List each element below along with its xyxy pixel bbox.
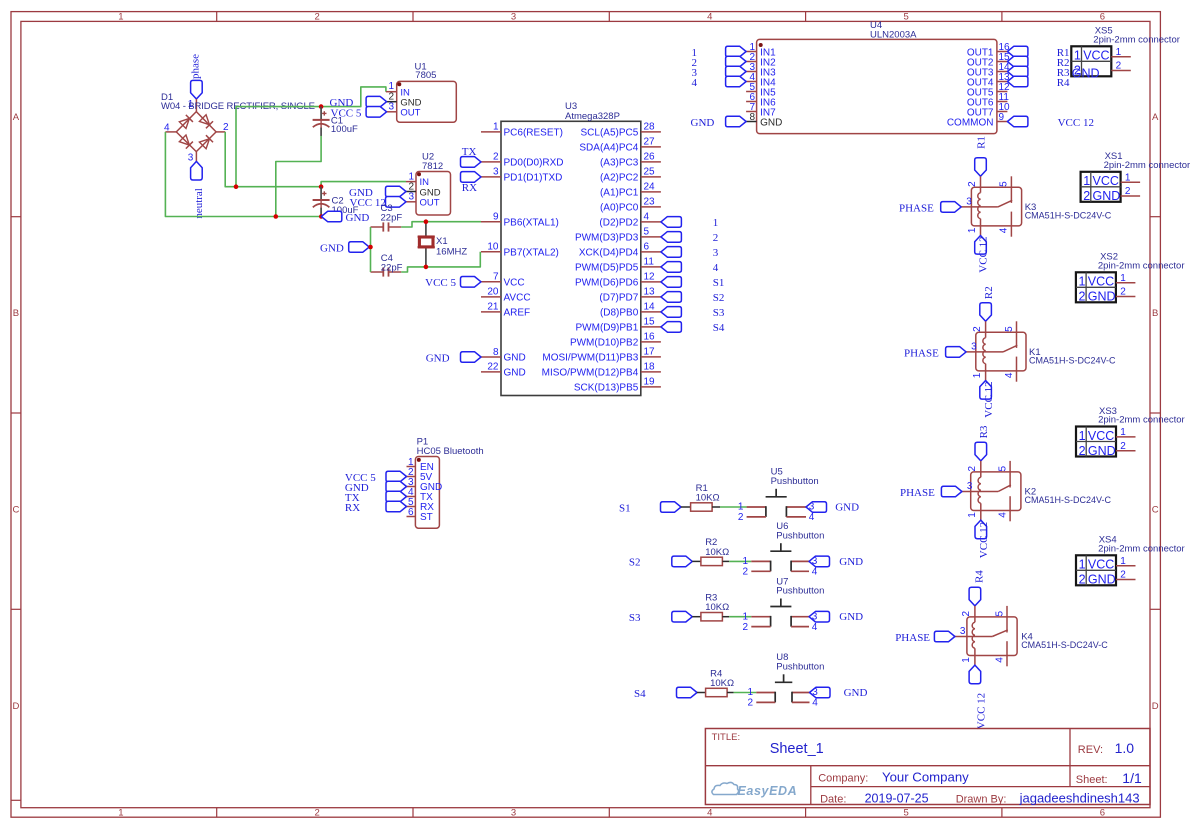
net flag S4: [677, 687, 698, 698]
svg-text:9: 9: [493, 212, 499, 223]
svg-text:2: 2: [743, 622, 749, 633]
pushbutton U8 actuator: [775, 681, 792, 683]
svg-text:ULN2003A: ULN2003A: [870, 30, 917, 41]
K2 pin 2 wire: [980, 461, 982, 477]
connector XS2 divider vertical: [1085, 272, 1087, 302]
K3 pin 1 wire: [980, 219, 982, 236]
net flag 2 at U4 IN2: [726, 56, 747, 67]
net flag PHASE at K3: [941, 202, 962, 213]
net flag RX at P1 pin 5: [386, 501, 407, 512]
svg-text:SCL(A5)PC5: SCL(A5)PC5: [580, 128, 638, 139]
net flag VCC 12 at U2 pin3: [386, 197, 407, 208]
svg-text:VCC 12: VCC 12: [1058, 117, 1094, 129]
K4 pin 4 contact: [1006, 641, 1008, 666]
pushbutton U8 pin 4 line: [792, 701, 810, 703]
crystal X1 top lead: [425, 222, 427, 237]
svg-text:12: 12: [644, 272, 656, 283]
svg-text:S3: S3: [713, 307, 725, 319]
svg-text:S4: S4: [634, 688, 646, 700]
svg-text:2: 2: [972, 326, 983, 332]
svg-text:5: 5: [999, 181, 1010, 187]
U3 pin 1 PC6(RESET) stub: [481, 131, 501, 133]
net flag R4 above K4: [969, 587, 981, 606]
svg-text:16MHZ: 16MHZ: [436, 246, 467, 257]
pushbutton U5 pin 3 line: [786, 506, 806, 508]
svg-text:VCC: VCC: [1093, 174, 1119, 188]
svg-text:2: 2: [1120, 287, 1126, 298]
svg-text:PWM(D6)PD6: PWM(D6)PD6: [575, 278, 639, 289]
svg-text:2: 2: [493, 152, 499, 163]
pushbutton U7 actuator: [770, 606, 791, 608]
svg-text:4: 4: [1004, 372, 1015, 378]
U4 pin 3 IN3 stub: [746, 71, 757, 73]
EasyEDA logo cloud: [712, 782, 739, 794]
P1 pin 4 TX stub: [407, 496, 416, 498]
svg-text:1: 1: [743, 611, 749, 622]
driver U4 box: [757, 39, 997, 133]
svg-text:ST: ST: [420, 512, 433, 523]
svg-text:PB6(XTAL1): PB6(XTAL1): [504, 217, 559, 228]
net flag VCC 12 below K4: [969, 665, 981, 684]
K2 pin 3 wire: [962, 491, 998, 493]
svg-text:5: 5: [1004, 326, 1015, 332]
resistor R2: [701, 557, 723, 565]
voltage regulator U2 box: [416, 172, 451, 216]
net flag VCC 12 below K1: [980, 381, 992, 400]
svg-text:SDA(A4)PC4: SDA(A4)PC4: [579, 143, 638, 154]
frame column ticks top: [216, 12, 218, 22]
XS4 pin 1 stub: [1116, 565, 1136, 567]
U3 pin 10 PB7(XTAL2) stub: [481, 251, 501, 253]
net flag S3 at U3 right: [661, 307, 682, 318]
svg-text:9: 9: [999, 112, 1005, 123]
net flag R1 above K3: [975, 158, 987, 177]
svg-text:3: 3: [960, 626, 966, 637]
svg-text:CMA51H-S-DC24V-C: CMA51H-S-DC24V-C: [1029, 355, 1116, 365]
svg-text:4: 4: [994, 657, 1005, 663]
relay K1 box: [976, 332, 1026, 371]
connector XS5 divider vertical: [1081, 46, 1083, 76]
U4 pin 9 COMMON stub: [997, 121, 1008, 123]
svg-text:GND: GND: [1088, 573, 1116, 587]
svg-text:20: 20: [487, 287, 499, 298]
net flag GND at crystal: [349, 242, 370, 253]
svg-text:1: 1: [738, 502, 744, 513]
diode D1b top-right: [199, 115, 213, 129]
svg-text:4: 4: [707, 12, 712, 23]
svg-text:1: 1: [1079, 558, 1086, 572]
K3 coil: [978, 193, 981, 219]
wire S2 flag to R2: [692, 560, 701, 562]
net flag R3 above K2: [975, 442, 987, 461]
svg-text:AVCC: AVCC: [504, 293, 531, 304]
svg-text:5: 5: [997, 465, 1008, 471]
title block logo cell divider: [810, 766, 812, 805]
pushbutton U6 left bar: [770, 561, 772, 572]
svg-text:GND: GND: [1072, 67, 1100, 81]
K2 pin 5 contact: [1009, 461, 1011, 488]
svg-text:Company:: Company:: [818, 773, 868, 785]
net flag 1 at U3 right: [661, 217, 682, 228]
svg-text:2: 2: [967, 465, 978, 471]
wire R1 to U5 pin1: [720, 506, 747, 508]
svg-text:1: 1: [972, 372, 983, 378]
pushbutton U6 pin 1 line: [751, 560, 770, 562]
wire bridge pin2 to C2 top: [225, 132, 321, 187]
U1 pin 2 stub: [387, 101, 397, 103]
pushbutton U5 pin 4 line: [786, 516, 806, 518]
net flag R1 at U4 OUT1: [1007, 46, 1028, 57]
svg-text:VCC: VCC: [504, 277, 525, 288]
net flag R2 above K1: [980, 303, 992, 322]
connector XS1 box: [1081, 172, 1121, 202]
net flag GND at P1 pin 3: [386, 481, 407, 492]
U3 pin 7 VCC stub: [481, 281, 501, 283]
pushbutton U8 pin 2 line: [756, 701, 775, 703]
K2 armature: [998, 485, 1011, 492]
svg-text:6: 6: [1100, 12, 1105, 23]
svg-text:SCK(D13)PB5: SCK(D13)PB5: [574, 383, 639, 394]
svg-text:10KΩ: 10KΩ: [696, 492, 720, 503]
junction X1 top: [424, 219, 429, 224]
svg-text:GND: GND: [426, 352, 450, 364]
svg-text:neutral: neutral: [193, 188, 205, 219]
voltage regulator U1 box: [397, 81, 457, 122]
svg-text:Pushbutton: Pushbutton: [771, 476, 819, 487]
svg-text:25: 25: [644, 167, 656, 178]
svg-text:3: 3: [188, 153, 194, 164]
svg-text:3: 3: [966, 196, 972, 207]
relay K2 box: [971, 472, 1021, 511]
svg-text:3: 3: [812, 687, 818, 698]
net flag PHASE at K4: [934, 631, 955, 642]
U3 pin 13 (D7)PD7 stub: [641, 296, 661, 298]
junction crystal GND: [368, 245, 373, 250]
net flag PHASE at K2: [941, 486, 962, 497]
net flag PHASE at K1: [946, 347, 967, 358]
svg-text:Pushbutton: Pushbutton: [776, 530, 824, 541]
U3 pin 23 (A0)PC0 stub: [641, 206, 661, 208]
capacitor C3: [371, 226, 384, 228]
XS4 pin 2 stub: [1116, 579, 1136, 581]
svg-text:2: 2: [713, 232, 719, 244]
pushbutton U5 right bar: [785, 506, 787, 517]
svg-text:5: 5: [903, 12, 908, 23]
svg-text:4: 4: [812, 698, 818, 709]
svg-text:1: 1: [493, 122, 499, 133]
connector XS4 divider vertical: [1085, 555, 1087, 585]
net flag 2 at U3 right: [661, 232, 682, 243]
title block rev column divider: [1069, 729, 1071, 787]
U1 pin 3 stub: [387, 111, 397, 113]
svg-text:16: 16: [644, 332, 656, 343]
wire neutral bottom rail: [165, 132, 321, 217]
svg-text:PHASE: PHASE: [904, 348, 939, 360]
wire S4 flag to R4: [697, 692, 706, 694]
net flag S2 at U3 right: [661, 292, 682, 303]
pushbutton U7 pin 1 line: [751, 616, 770, 618]
svg-text:19: 19: [644, 377, 656, 388]
svg-text:1: 1: [118, 12, 123, 23]
svg-text:R3: R3: [978, 425, 990, 438]
K2 pin 1 wire: [980, 503, 982, 520]
net flag S2: [672, 556, 693, 567]
connector XS3 box: [1076, 427, 1116, 457]
wire C3 left to C4 left: [370, 227, 372, 272]
svg-text:MISO/PWM(D12)PB4: MISO/PWM(D12)PB4: [542, 368, 639, 379]
svg-text:3: 3: [971, 341, 977, 352]
K1 armature: [1003, 345, 1017, 352]
U3 pin 15 PWM(D9)PB1 stub: [641, 326, 661, 328]
svg-text:3: 3: [493, 167, 499, 178]
svg-text:23: 23: [644, 197, 656, 208]
svg-text:1: 1: [1074, 49, 1081, 63]
pushbutton U5 actuator: [766, 496, 787, 498]
svg-text:jagadeeshdinesh143: jagadeeshdinesh143: [1019, 791, 1140, 806]
svg-text:S1: S1: [713, 277, 725, 289]
svg-text:2: 2: [1079, 573, 1086, 587]
svg-text:D: D: [12, 701, 19, 712]
svg-text:2: 2: [743, 567, 749, 578]
U4 pin 6 IN6 stub: [746, 101, 757, 103]
P1 pin 3 GND stub: [407, 486, 416, 488]
junction neutral rail: [274, 214, 279, 219]
U3 pin 12 PWM(D6)PD6 stub: [641, 281, 661, 283]
U3 pin 17 MOSI/PWM(D11)PB3 stub: [641, 356, 661, 358]
U4 pin 16 OUT1 stub: [997, 51, 1008, 53]
net flag neutral: [191, 161, 203, 180]
svg-text:1: 1: [1116, 47, 1122, 58]
P1 pin 5 RX stub: [407, 506, 416, 508]
svg-text:22pF: 22pF: [381, 213, 403, 224]
svg-text:8: 8: [749, 112, 755, 123]
U2 pin 1 stub: [406, 181, 416, 183]
net flag TX at U3 pin2: [461, 157, 482, 168]
connector XS2 box: [1076, 272, 1116, 302]
wire R1 lead right: [712, 506, 720, 508]
pushbutton U8 left bar: [774, 692, 776, 703]
svg-text:PWM(D9)PB1: PWM(D9)PB1: [576, 323, 639, 334]
svg-text:28: 28: [644, 122, 656, 133]
svg-text:2: 2: [1116, 61, 1122, 72]
U4 pin 8 GND stub: [746, 121, 757, 123]
svg-text:15: 15: [644, 317, 656, 328]
svg-text:3: 3: [511, 12, 516, 23]
svg-text:(D8)PB0: (D8)PB0: [600, 308, 639, 319]
svg-text:2: 2: [315, 12, 320, 23]
title block title row divider: [705, 765, 1150, 767]
net flag GND at U1 pin2: [366, 96, 387, 107]
wire to U2 IN: [321, 182, 406, 187]
wire R4 lead right: [727, 692, 734, 694]
net flag 3 at U3 right: [661, 247, 682, 258]
svg-text:VCC: VCC: [1088, 558, 1114, 572]
wire branch up to C1 top: [236, 107, 321, 187]
U2 corner dot: [417, 172, 421, 176]
net flag R2 at U4 OUT2: [1007, 56, 1028, 67]
svg-text:3: 3: [388, 102, 394, 113]
wire C1 top to U1 IN: [321, 87, 386, 107]
svg-text:4: 4: [707, 808, 712, 819]
pushbutton U6 pin 4 line: [791, 570, 809, 572]
net flag VCC 5 at P1 pin 2: [386, 471, 407, 482]
svg-text:PHASE: PHASE: [899, 203, 934, 215]
wire C1 bottom to neutral net: [276, 136, 321, 217]
svg-text:TITLE:: TITLE:: [712, 732, 741, 743]
svg-text:6: 6: [408, 507, 414, 518]
K3 pin 3 wire: [961, 206, 998, 208]
U3 pin 25 (A2)PC2 stub: [641, 176, 661, 178]
U4 pin 15 OUT2 stub: [997, 61, 1008, 63]
svg-text:18: 18: [644, 362, 656, 373]
net flag S1: [661, 502, 682, 513]
connector XS5 box: [1071, 46, 1111, 76]
wire S1 flag to R1: [681, 506, 691, 508]
K2 pin 4 contact: [1009, 496, 1011, 521]
svg-text:TX: TX: [462, 146, 477, 158]
net flag VCC 5 at U3 pin7: [461, 277, 482, 288]
junction on bridge output: [234, 184, 239, 189]
P1 pin 6 ST stub: [407, 516, 416, 518]
U4 pin 7 IN7 stub: [746, 111, 757, 113]
U3 pin 27 SDA(A4)PC4 stub: [641, 146, 661, 148]
K3 armature: [998, 200, 1012, 207]
svg-text:2pin-2mm connector: 2pin-2mm connector: [1098, 543, 1185, 554]
svg-text:GND: GND: [839, 611, 863, 623]
svg-text:R4: R4: [973, 570, 985, 583]
svg-text:CMA51H-S-DC24V-C: CMA51H-S-DC24V-C: [1021, 640, 1108, 650]
U4 pin 13 OUT4 stub: [997, 81, 1008, 83]
svg-text:11: 11: [644, 257, 655, 268]
K2 coil: [978, 477, 981, 503]
wire R4 to U8 pin1: [734, 692, 757, 694]
net flag R3 at U4 OUT3: [1007, 66, 1028, 77]
wire R3 to U7 pin1: [729, 616, 751, 618]
XS2 pin 1 stub: [1116, 282, 1136, 284]
XS3 pin 2 stub: [1116, 450, 1136, 452]
XS1 pin 2 stub: [1121, 195, 1141, 197]
svg-text:PD1(D1)TXD: PD1(D1)TXD: [504, 173, 563, 184]
svg-text:3: 3: [967, 481, 973, 492]
capacitor C1: [320, 107, 322, 120]
microcontroller U3 box: [501, 121, 641, 395]
P1 corner dot: [417, 458, 421, 462]
svg-text:(D2)PD2: (D2)PD2: [599, 218, 638, 229]
svg-text:XCK(D4)PD4: XCK(D4)PD4: [579, 248, 639, 259]
K4 pin 2 wire: [974, 606, 976, 622]
net flag GND at U2 pin2: [386, 186, 407, 197]
svg-text:GND: GND: [346, 212, 370, 224]
svg-text:10KΩ: 10KΩ: [710, 678, 734, 689]
net flag S1 at U3 right: [661, 277, 682, 288]
bridge pin 3 stub: [195, 152, 197, 162]
svg-text:Pushbutton: Pushbutton: [776, 586, 824, 597]
pushbutton U5 pin 2 line: [747, 516, 766, 518]
K3 pin 4 contact: [1010, 212, 1012, 237]
net flag RX at U3 pin3: [461, 172, 482, 183]
net flag phase: [191, 80, 203, 99]
K1 coil: [983, 338, 986, 364]
svg-text:(A0)PC0: (A0)PC0: [600, 203, 639, 214]
diode D1a top-left: [179, 115, 193, 129]
svg-text:2: 2: [748, 698, 754, 709]
XS2 pin 2 stub: [1116, 296, 1136, 298]
U3 pin 24 (A1)PC1 stub: [641, 191, 661, 193]
XS5 pin 1 stub: [1111, 56, 1131, 58]
U3 pin 3 PD1(D1)TXD stub: [481, 176, 501, 178]
pushbutton U7 pin 3 line: [791, 616, 809, 618]
svg-text:7812: 7812: [422, 161, 443, 172]
svg-text:3: 3: [809, 502, 815, 513]
svg-text:VCC 12: VCC 12: [983, 381, 995, 417]
net flag 4 at U3 right: [661, 262, 682, 273]
U4 pin 10 OUT7 stub: [997, 111, 1008, 113]
U4 pin 5 IN5 stub: [746, 91, 757, 93]
connector XS4 divider horizontal: [1076, 569, 1116, 571]
XS1 pin 1 stub: [1121, 181, 1141, 183]
svg-text:22pF: 22pF: [381, 263, 403, 274]
pushbutton U7 right bar: [790, 616, 792, 627]
svg-text:(A1)PC1: (A1)PC1: [600, 188, 639, 199]
svg-text:10: 10: [487, 242, 499, 253]
svg-text:(A2)PC2: (A2)PC2: [600, 173, 639, 184]
U1 corner dot: [397, 82, 401, 86]
connector XS5 divider horizontal: [1071, 60, 1111, 62]
frame row ticks left: [11, 216, 21, 218]
net flag GND at U5: [806, 502, 827, 513]
U3 pin 8 GND stub: [481, 356, 501, 358]
svg-text:1: 1: [967, 512, 978, 518]
svg-text:2: 2: [315, 808, 320, 819]
K4 armature: [992, 630, 1008, 637]
svg-text:2: 2: [1083, 189, 1090, 203]
net flag VCC 12 at U4 COMMON: [1007, 116, 1028, 127]
U3 pin 4 (D2)PD2 stub: [641, 221, 661, 223]
svg-text:GND: GND: [835, 501, 859, 513]
net flag GND at C2 bottom: [321, 211, 342, 222]
svg-text:OUT: OUT: [400, 108, 420, 119]
svg-text:PWM(D3)PD3: PWM(D3)PD3: [575, 233, 639, 244]
svg-text:4: 4: [644, 212, 650, 223]
svg-text:27: 27: [644, 137, 656, 148]
svg-text:22: 22: [487, 362, 499, 373]
svg-text:5: 5: [994, 610, 1005, 616]
svg-text:GND: GND: [691, 117, 715, 129]
net flag TX at P1 pin 4: [386, 491, 407, 502]
svg-text:VCC 12: VCC 12: [978, 522, 990, 558]
svg-text:13: 13: [644, 287, 656, 298]
P1 pin 1 EN stub: [407, 466, 416, 468]
wire R2 to U6 pin1: [729, 560, 751, 562]
svg-text:2: 2: [1120, 570, 1126, 581]
bridge pin 2 stub: [216, 131, 225, 133]
svg-text:Drawn By:: Drawn By:: [956, 794, 1007, 806]
svg-text:GND: GND: [320, 242, 344, 254]
svg-text:1.0: 1.0: [1115, 740, 1135, 756]
net flag GND at U4 pin8: [726, 116, 747, 127]
net flag GND at U3 pin8: [461, 352, 482, 363]
svg-text:2pin-2mm connector: 2pin-2mm connector: [1093, 34, 1180, 45]
frame column ticks bottom: [216, 808, 218, 818]
svg-text:VCC: VCC: [1088, 275, 1114, 289]
svg-text:(D7)PD7: (D7)PD7: [599, 293, 638, 304]
U3 pin 22 GND stub: [481, 371, 501, 373]
svg-text:2pin-2mm connector: 2pin-2mm connector: [1098, 415, 1185, 426]
svg-text:EasyEDA: EasyEDA: [738, 784, 798, 798]
U3 pin 14 (D8)PB0 stub: [641, 311, 661, 313]
resistor R1: [691, 503, 713, 511]
svg-text:8: 8: [493, 347, 499, 358]
